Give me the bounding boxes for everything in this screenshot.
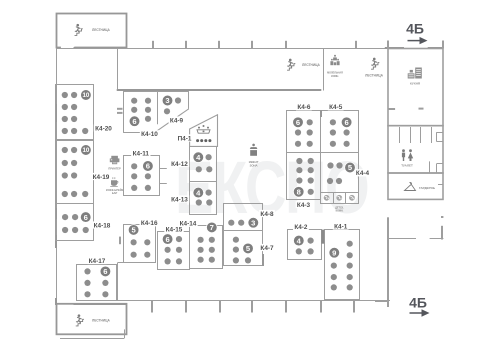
svg-text:К4-18: К4-18 [94, 222, 111, 229]
svg-text:6: 6 [132, 117, 136, 126]
svg-text:К4-13: К4-13 [171, 196, 188, 203]
svg-text:К4-5: К4-5 [329, 104, 343, 111]
svg-text:К4-16: К4-16 [141, 220, 158, 227]
svg-text:ЗОНА: ЗОНА [250, 164, 258, 168]
svg-text:4Б: 4Б [406, 21, 424, 37]
svg-text:КОМН.: КОМН. [331, 75, 339, 78]
svg-text:К4-3: К4-3 [297, 202, 311, 209]
svg-text:7: 7 [210, 223, 214, 232]
svg-text:БАР: БАР [112, 191, 118, 195]
svg-text:К4-14: К4-14 [180, 221, 197, 228]
svg-text:К4-10: К4-10 [141, 131, 158, 138]
svg-text:6: 6 [103, 267, 107, 276]
svg-text:ЛЕСТНИЦА: ЛЕСТНИЦА [92, 28, 110, 32]
svg-text:К4-9: К4-9 [170, 117, 184, 124]
svg-text:10: 10 [82, 147, 89, 154]
svg-text:П4-1: П4-1 [178, 135, 192, 142]
svg-text:КОМН.: КОМН. [336, 210, 344, 213]
svg-text:ЛЕСТНИЦА: ЛЕСТНИЦА [92, 319, 110, 323]
svg-text:К4-4: К4-4 [356, 170, 370, 177]
svg-text:6: 6 [146, 162, 150, 171]
svg-text:3: 3 [165, 96, 169, 105]
svg-text:К4-11: К4-11 [133, 151, 150, 158]
svg-text:8: 8 [297, 187, 301, 196]
svg-text:ЛЕСТНИЦА: ЛЕСТНИЦА [365, 74, 383, 78]
svg-text:К4-6: К4-6 [297, 104, 311, 111]
svg-text:ЛЕСТНИЦА: ЛЕСТНИЦА [302, 63, 320, 67]
svg-text:ТУАЛЕТ: ТУАЛЕТ [401, 164, 413, 168]
svg-text:6: 6 [344, 118, 348, 127]
svg-text:К4-7: К4-7 [260, 245, 274, 252]
svg-text:К4-1: К4-1 [334, 223, 348, 230]
svg-text:КУХНЯ: КУХНЯ [410, 82, 420, 86]
svg-text:КОФЕ-БРЕЙК: КОФЕ-БРЕЙК [106, 188, 124, 192]
svg-text:К4-2: К4-2 [294, 224, 308, 231]
svg-text:К4-17: К4-17 [89, 258, 106, 265]
svg-text:6: 6 [165, 235, 169, 244]
svg-text:ПРИНТЕР: ПРИНТЕР [108, 167, 121, 171]
svg-text:К4-8: К4-8 [260, 211, 274, 218]
svg-text:4Б: 4Б [409, 295, 427, 311]
svg-text:К4-19: К4-19 [93, 174, 110, 181]
svg-text:3: 3 [251, 218, 255, 227]
svg-text:6: 6 [296, 118, 300, 127]
svg-text:10: 10 [82, 92, 89, 99]
svg-text:К4-20: К4-20 [95, 125, 112, 132]
svg-text:ГАРДЕРОБ: ГАРДЕРОБ [419, 186, 436, 190]
svg-text:6: 6 [84, 213, 88, 222]
svg-text:9: 9 [332, 248, 336, 257]
svg-text:К4-12: К4-12 [171, 161, 188, 168]
